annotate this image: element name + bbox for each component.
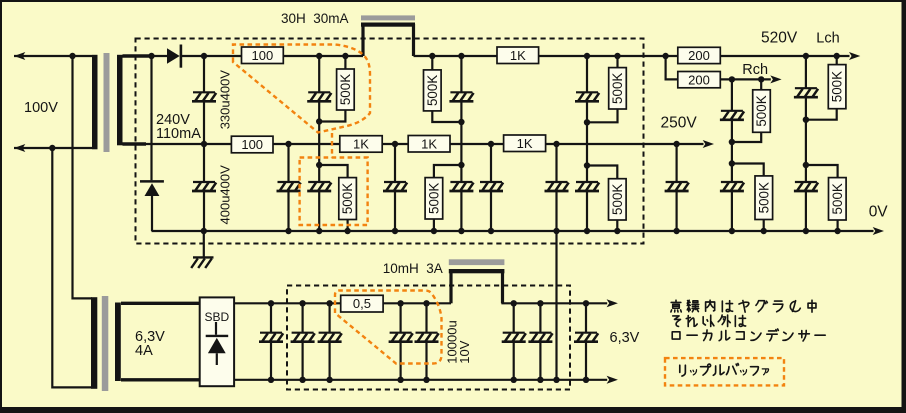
svg-text:1K: 1K — [510, 48, 526, 63]
svg-text:200: 200 — [688, 48, 710, 63]
svg-text:400u400V: 400u400V — [217, 165, 232, 225]
svg-text:100: 100 — [241, 137, 263, 152]
svg-text:500K: 500K — [610, 73, 625, 104]
svg-text:4A: 4A — [135, 343, 153, 359]
svg-text:520V: 520V — [761, 30, 798, 47]
svg-text:30H 30mA: 30H 30mA — [281, 11, 349, 26]
svg-text:500K: 500K — [830, 183, 845, 214]
svg-text:500K: 500K — [610, 184, 625, 215]
svg-text:330u400V: 330u400V — [217, 70, 232, 130]
svg-text:200: 200 — [688, 72, 710, 87]
svg-text:10mH 3A: 10mH 3A — [383, 261, 443, 276]
svg-text:Lch: Lch — [816, 31, 839, 47]
svg-text:250V: 250V — [661, 115, 698, 132]
svg-text:SBD: SBD — [205, 310, 230, 324]
svg-text:500K: 500K — [830, 71, 845, 102]
svg-text:500K: 500K — [756, 182, 771, 213]
svg-text:500K: 500K — [338, 74, 353, 105]
svg-text:10V: 10V — [457, 340, 472, 363]
svg-text:1K: 1K — [353, 137, 369, 152]
svg-text:0V: 0V — [869, 204, 889, 221]
svg-text:6,3V: 6,3V — [610, 330, 640, 346]
svg-text:500K: 500K — [426, 183, 441, 214]
svg-text:500K: 500K — [754, 95, 769, 126]
svg-text:1K: 1K — [421, 136, 437, 151]
svg-text:500K: 500K — [425, 75, 440, 106]
svg-text:500K: 500K — [340, 183, 355, 214]
svg-text:100: 100 — [252, 48, 274, 63]
svg-text:100V: 100V — [24, 100, 58, 116]
svg-text:1K: 1K — [517, 136, 533, 151]
svg-text:0,5: 0,5 — [353, 296, 371, 311]
svg-text:Rch: Rch — [742, 62, 768, 78]
svg-text:110mA: 110mA — [156, 126, 201, 142]
